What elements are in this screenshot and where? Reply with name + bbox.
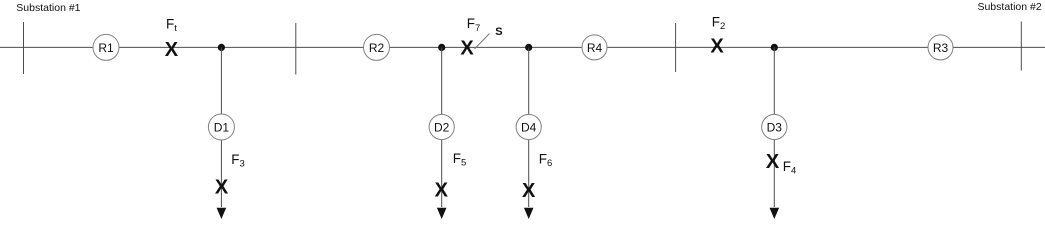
svg-text:Substation #1: Substation #1 — [16, 2, 80, 14]
svg-text:R4: R4 — [587, 41, 603, 55]
svg-text:R3: R3 — [933, 41, 949, 55]
wire: main feeder line from Substation #1 to Substation #2 — [0, 46, 1045, 48]
device D3 — [762, 114, 787, 139]
svg-text:F4: F4 — [783, 159, 797, 177]
svg-text:Ft: Ft — [166, 17, 177, 35]
svg-text:X: X — [215, 176, 229, 198]
switch S blade (open) — [475, 34, 490, 50]
Substation #2 bus bar — [1020, 22, 1022, 71]
device D1 — [208, 114, 234, 140]
node: tap junction 4 — [771, 44, 778, 51]
svg-text:F3: F3 — [231, 152, 245, 170]
svg-text:X: X — [710, 35, 724, 57]
load arrow under D3 — [770, 208, 780, 219]
svg-text:S: S — [495, 26, 502, 38]
wire: lateral drop to D1 load — [220, 47, 222, 207]
svg-text:R2: R2 — [369, 41, 385, 55]
device D4 — [516, 114, 541, 139]
sectionalizing tick 1 — [295, 23, 297, 75]
node: tap junction 1 — [218, 44, 225, 51]
svg-text:F2: F2 — [712, 14, 726, 32]
load arrow under D2 — [437, 208, 447, 219]
svg-text:X: X — [522, 180, 536, 202]
svg-text:Substation #2: Substation #2 — [977, 1, 1041, 13]
recloser R2 — [364, 34, 390, 60]
recloser R1 — [93, 34, 119, 60]
svg-text:D3: D3 — [767, 120, 783, 134]
svg-text:X: X — [165, 39, 179, 61]
svg-text:F5: F5 — [453, 151, 467, 169]
wire: lateral drop to D3 load — [773, 47, 775, 207]
svg-text:F7: F7 — [467, 16, 481, 34]
recloser R4 — [582, 35, 607, 60]
node: tap junction 2 — [438, 44, 445, 51]
svg-text:X: X — [766, 151, 780, 173]
svg-text:D4: D4 — [521, 120, 537, 134]
svg-text:X: X — [460, 37, 474, 59]
sectionalizing tick 2 — [675, 23, 677, 72]
svg-text:R1: R1 — [98, 41, 114, 55]
load arrow under D4 — [524, 208, 534, 219]
svg-text:D2: D2 — [434, 120, 450, 134]
svg-text:X: X — [435, 179, 449, 201]
wire: lateral drop to D4 load — [528, 47, 530, 207]
load arrow under D1 — [217, 208, 227, 219]
Substation #1 bus bar — [23, 22, 25, 74]
wire: lateral drop to D2 load — [441, 47, 443, 207]
svg-text:F6: F6 — [539, 152, 553, 170]
node: tap junction 3 — [525, 44, 532, 51]
svg-text:D1: D1 — [214, 120, 230, 134]
device D2 — [429, 114, 454, 139]
recloser R3 — [928, 35, 953, 60]
